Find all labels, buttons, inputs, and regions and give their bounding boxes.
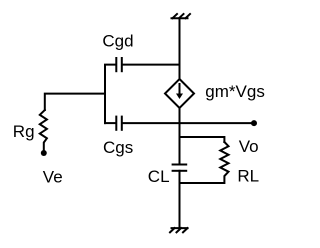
- svg-text:CL: CL: [148, 167, 170, 186]
- capacitor Cgs: [105, 117, 122, 130]
- svg-text:RL: RL: [237, 167, 259, 186]
- svg-text:Vo: Vo: [239, 137, 259, 156]
- resistor Rg: [40, 110, 47, 150]
- wire top ground to current source: [179, 18, 181, 79]
- dependent current source U1 diamond: [165, 79, 194, 108]
- svg-text:Ve: Ve: [43, 168, 63, 187]
- svg-text:Rg: Rg: [13, 122, 35, 141]
- node Vo terminal dot: [251, 120, 257, 126]
- svg-text:gm*Vgs: gm*Vgs: [205, 82, 265, 101]
- wire Cgs to output node: [123, 122, 252, 124]
- ground (top): [172, 14, 191, 18]
- wire gate node to Rg: [45, 94, 105, 110]
- svg-text:Cgs: Cgs: [103, 138, 133, 157]
- capacitor CL: [173, 165, 187, 171]
- svg-text:Cgd: Cgd: [102, 31, 133, 50]
- node Ve terminal dot: [41, 150, 47, 156]
- current source arrow: [176, 84, 183, 99]
- resistor RL with parallel wires: [180, 137, 229, 183]
- capacitor Cgd: [105, 58, 180, 123]
- wire CL to bottom ground: [179, 171, 181, 228]
- ground (bottom): [170, 228, 188, 232]
- wire current source to CL: [179, 108, 181, 164]
